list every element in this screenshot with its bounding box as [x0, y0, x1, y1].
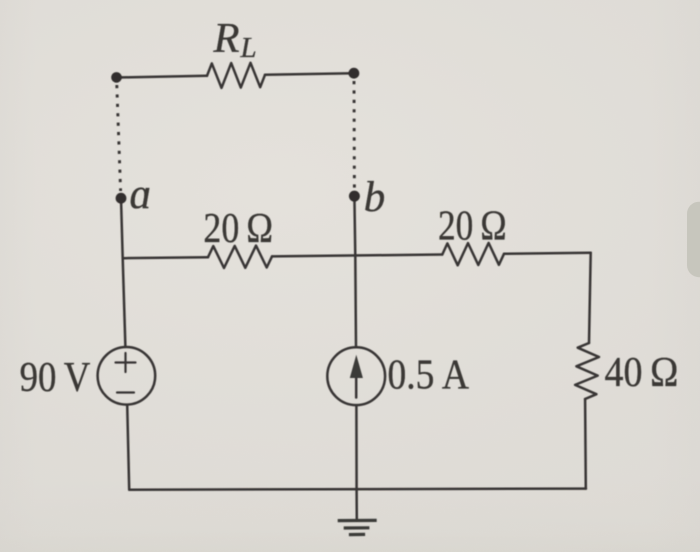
- node top-left terminal dot: [111, 72, 122, 83]
- wire left dotted link: [117, 85, 121, 191]
- label 20 ohm right: [438, 203, 507, 250]
- node a dot: [116, 193, 127, 204]
- node b dot: [349, 191, 360, 202]
- svg-text:20 Ω: 20 Ω: [203, 205, 273, 252]
- resistor R1 20ohm zigzag: [208, 246, 272, 268]
- wire mid vertical b branch: [354, 196, 356, 347]
- wire mid horizontal left: [123, 257, 208, 258]
- svg-text:R: R: [213, 15, 240, 62]
- label RL: [213, 15, 257, 64]
- resistor R2 20ohm zigzag: [442, 243, 504, 265]
- scrollbar tab right edge: [687, 202, 700, 278]
- node top-right terminal dot: [349, 68, 360, 79]
- wire right branch lower: [584, 399, 587, 489]
- wire left branch upper: [121, 198, 125, 347]
- wire mid horizontal right: [504, 253, 591, 254]
- svg-text:40 Ω: 40 Ω: [605, 349, 679, 396]
- voltage source V1 minus sign: [117, 391, 134, 393]
- label 20 ohm left: [203, 205, 273, 252]
- resistor RL zigzag: [207, 63, 265, 88]
- label node a: [130, 171, 152, 218]
- label 90 V: [20, 354, 91, 401]
- current source I1 arrow head: [350, 355, 363, 378]
- wire top left segment: [117, 76, 208, 78]
- svg-text:ɑ: ɑ: [130, 171, 152, 218]
- svg-text:20 Ω: 20 Ω: [438, 203, 507, 250]
- wire top right segment: [265, 73, 354, 75]
- voltage source V1 plus sign: [116, 353, 136, 372]
- svg-text:0.5 A: 0.5 A: [388, 351, 470, 398]
- wire right branch upper: [589, 253, 591, 343]
- voltage source V1 circle: [98, 347, 156, 405]
- resistor R3 40ohm zigzag: [575, 343, 599, 399]
- wire left branch lower: [127, 405, 129, 490]
- wire mid horizontal center: [272, 255, 442, 257]
- current source I1 arrow shaft: [355, 373, 358, 398]
- label node b: [364, 174, 386, 221]
- wire bottom: [129, 489, 586, 490]
- svg-text:90 V: 90 V: [20, 354, 91, 401]
- ground: [338, 520, 377, 534]
- wire mid vertical lower: [355, 405, 358, 520]
- current source I1 circle: [327, 347, 385, 405]
- svg-text:b: b: [364, 174, 386, 221]
- label 0.5 A: [388, 351, 470, 398]
- label 40 ohm: [605, 349, 679, 396]
- svg-text:L: L: [240, 32, 257, 64]
- wire right dotted link: [353, 81, 356, 189]
